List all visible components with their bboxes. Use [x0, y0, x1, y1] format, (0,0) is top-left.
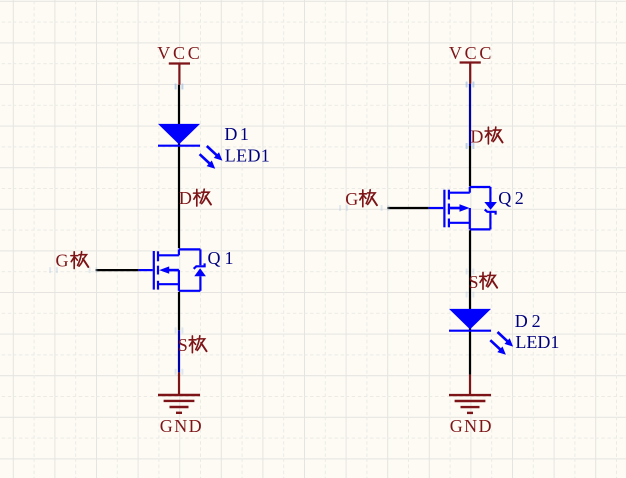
svg-text:VCC: VCC — [449, 43, 492, 63]
svg-text:GND: GND — [160, 416, 202, 436]
svg-text:D: D — [179, 188, 192, 208]
svg-text:LED1: LED1 — [515, 332, 559, 352]
svg-text:S: S — [469, 272, 479, 292]
svg-text:D2: D2 — [515, 311, 541, 331]
svg-text:D: D — [470, 127, 483, 147]
svg-text:Q2: Q2 — [498, 188, 524, 208]
svg-text:GND: GND — [450, 416, 492, 436]
svg-text:VCC: VCC — [157, 43, 200, 63]
svg-text:LED1: LED1 — [225, 146, 270, 166]
svg-text:D1: D1 — [224, 124, 249, 144]
svg-text:S: S — [178, 335, 188, 355]
